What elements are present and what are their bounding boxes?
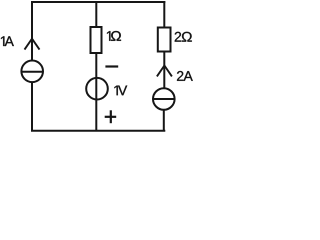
resistor R2 [158, 28, 171, 52]
wire middle branch upper [95, 1, 97, 27]
wire left branch upper [31, 1, 33, 61]
V1 minus sign [105, 65, 118, 67]
current source I2 circle [153, 88, 175, 110]
current source I2 arrow [157, 66, 172, 77]
wire middle branch lower [95, 53, 97, 131]
wire right branch middle [163, 52, 165, 89]
resistor R1 [91, 27, 102, 53]
label 2Ohm [175, 32, 192, 42]
label 1V [114, 86, 127, 96]
label 2A [177, 71, 193, 81]
label 1Ohm [107, 31, 121, 41]
wire bottom rail [31, 130, 165, 132]
current source I2 bar [153, 98, 175, 100]
current source I1 arrow [25, 39, 40, 50]
current source I1 circle [21, 61, 43, 83]
wire top rail [31, 1, 165, 3]
wire right branch lower [163, 110, 165, 132]
label 1A [1, 36, 14, 46]
voltage source V1 circle [86, 78, 108, 100]
current source I1 bar [21, 71, 43, 73]
V1 plus sign [105, 116, 117, 118]
wire left branch lower [31, 82, 33, 131]
wire right branch upper [163, 1, 165, 28]
